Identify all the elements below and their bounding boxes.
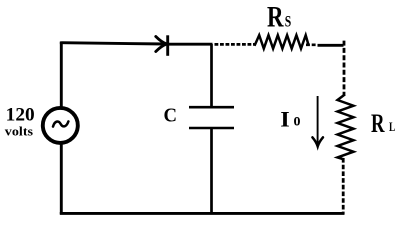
resistor R_S zigzag — [255, 35, 309, 48]
svg-text:S: S — [285, 13, 292, 30]
svg-text:R: R — [371, 108, 385, 138]
wire: bottom horizontal — [60, 212, 345, 215]
svg-text:volts: volts — [5, 125, 33, 139]
current arrow I_o line — [317, 96, 319, 146]
wire: solid to top-right corner — [318, 44, 344, 47]
wire: left vertical lower (source to bottom wire) — [60, 144, 63, 214]
svg-text:120: 120 — [6, 105, 35, 126]
wire: right vertical dashed lower — [342, 158, 345, 214]
wire: capacitor branch lower — [210, 129, 213, 215]
capacitor C bottom plate — [189, 127, 234, 130]
svg-text:R: R — [267, 1, 284, 34]
source V1 sine tilde — [53, 121, 68, 126]
source V1 circle — [43, 108, 78, 143]
svg-text:I: I — [280, 107, 290, 132]
wire: top horizontal from source to diode — [61, 41, 166, 44]
svg-text:L: L — [389, 120, 395, 134]
wire: capacitor branch upper — [210, 44, 213, 107]
svg-text:C: C — [164, 105, 178, 127]
wire: diode bar to capacitor node — [168, 43, 213, 46]
wire: dashes after Rs — [306, 43, 316, 46]
svg-text:o: o — [294, 110, 301, 130]
current arrow I_o head — [312, 137, 323, 146]
wire: dashed top between node and Rs — [215, 43, 255, 46]
resistor R_L zigzag — [338, 95, 354, 160]
diode D1 arrowhead — [156, 37, 167, 52]
wire: right vertical dashed upper — [343, 41, 346, 96]
wire: left vertical upper (top corner to source) — [60, 42, 63, 107]
capacitor C top plate — [189, 106, 234, 109]
diode D1 bar — [166, 35, 169, 56]
